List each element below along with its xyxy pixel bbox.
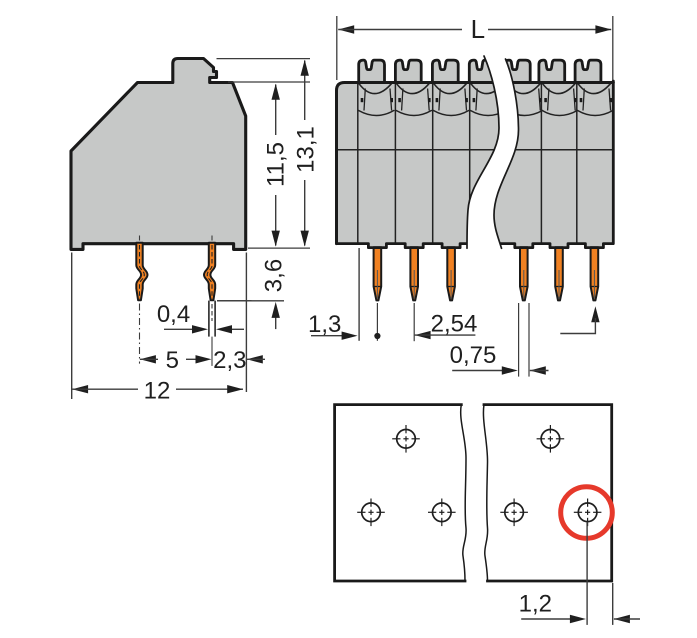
svg-text:11,5: 11,5 [263,142,290,187]
svg-text:1,3: 1,3 [308,311,341,338]
svg-text:2,3: 2,3 [213,347,246,374]
svg-text:2,54: 2,54 [431,311,478,338]
svg-text:13,1: 13,1 [293,126,320,173]
svg-text:L: L [471,14,485,44]
svg-text:5: 5 [166,347,179,374]
svg-text:0,75: 0,75 [450,342,497,369]
svg-text:1,2: 1,2 [519,591,552,618]
svg-text:0,4: 0,4 [157,301,190,328]
svg-text:12: 12 [144,378,171,405]
svg-text:3,6: 3,6 [261,259,288,292]
